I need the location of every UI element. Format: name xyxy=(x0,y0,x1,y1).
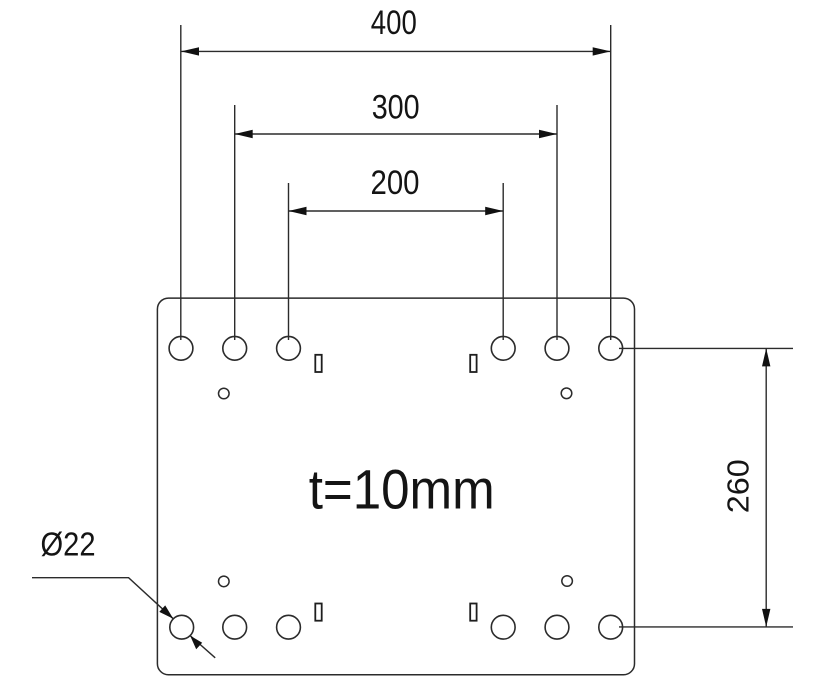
hole H1 top-left xyxy=(169,336,193,360)
svg-text:400: 400 xyxy=(371,4,417,42)
hole H8 xyxy=(223,615,247,639)
svg-text:Ø22: Ø22 xyxy=(41,526,96,563)
dimension 260 line xyxy=(762,348,770,627)
pilot hole P4 xyxy=(562,576,573,587)
dimension 200 extension line left xyxy=(288,183,290,340)
svg-text:300: 300 xyxy=(372,89,420,127)
diameter label Ø22 xyxy=(41,526,96,563)
pilot hole P2 xyxy=(561,388,572,399)
dimension 400 line xyxy=(181,47,611,55)
hole H11 xyxy=(545,615,569,639)
svg-text:260: 260 xyxy=(720,459,755,513)
hole H12 bottom-right xyxy=(599,615,623,639)
slot S3 bottom-left xyxy=(315,604,321,621)
plate outline xyxy=(157,298,634,675)
dimension 300 line xyxy=(235,130,557,138)
pilot hole P3 xyxy=(219,576,230,587)
dimension 260 extension line top xyxy=(619,347,793,349)
hole H9 xyxy=(277,615,301,639)
pilot hole P1 xyxy=(219,388,230,399)
hole H6 top-right xyxy=(599,336,623,360)
dimension 400 extension line left xyxy=(180,25,182,340)
hole H4 xyxy=(491,336,515,360)
dimension 260 extension line bottom xyxy=(619,626,793,628)
hole H2 xyxy=(223,336,247,360)
hole H5 xyxy=(545,336,569,360)
svg-text:t=10mm: t=10mm xyxy=(309,458,495,521)
dimension 300 label xyxy=(372,89,420,127)
svg-text:200: 200 xyxy=(371,164,420,202)
thickness note t=10mm xyxy=(309,458,495,521)
slot S2 top-right xyxy=(470,355,476,372)
dimension 200 line xyxy=(289,207,504,215)
hole H3 xyxy=(277,336,301,360)
dimension 300 extension line right xyxy=(556,105,558,340)
dimension 200 extension line right xyxy=(502,183,504,340)
hole H7 bottom-left xyxy=(170,615,194,639)
hole H10 xyxy=(491,615,515,639)
slot S4 bottom-right xyxy=(470,604,476,621)
dimension 260 label xyxy=(720,459,755,513)
dimension 300 extension line left xyxy=(234,105,236,340)
leader line Ø22 xyxy=(32,578,215,658)
dimension 200 label xyxy=(371,164,420,202)
dimension 400 label xyxy=(371,4,417,42)
slot S1 top-left xyxy=(315,355,321,372)
dimension 400 extension line right xyxy=(610,25,612,340)
